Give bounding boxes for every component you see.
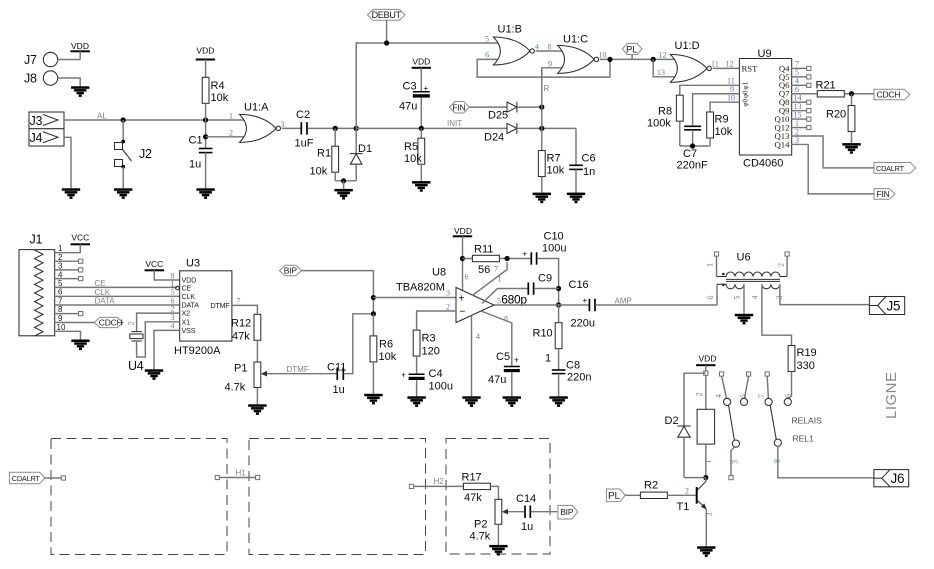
svg-text:6: 6 bbox=[706, 296, 715, 300]
svg-text:FIN: FIN bbox=[452, 102, 465, 112]
wire net DATA bbox=[55, 297, 180, 306]
svg-text:56: 56 bbox=[478, 264, 490, 276]
wire U9 pin10 to R9 bbox=[710, 94, 739, 113]
resistor R8 bbox=[647, 95, 683, 146]
transistor T1 bbox=[677, 478, 715, 517]
svg-text:R3: R3 bbox=[422, 333, 436, 345]
IC U3 HT9200A bbox=[171, 258, 232, 358]
wire J1 pin9 to CDCH bbox=[55, 322, 95, 324]
net tag CDALRT (bottom left) bbox=[9, 472, 65, 484]
ground (R6) bbox=[364, 394, 382, 405]
svg-text:10: 10 bbox=[727, 94, 735, 103]
net tag CDALRT (right) bbox=[874, 163, 916, 174]
svg-text:5: 5 bbox=[733, 296, 742, 300]
power VCC (J1) bbox=[55, 233, 90, 253]
svg-text:D1: D1 bbox=[358, 143, 372, 155]
svg-text:10k: 10k bbox=[547, 165, 565, 177]
svg-text:R8: R8 bbox=[658, 106, 672, 118]
resistor R3 bbox=[413, 330, 440, 374]
wire oscillator bottom bbox=[680, 143, 710, 148]
svg-text:6: 6 bbox=[485, 51, 489, 60]
svg-text:7: 7 bbox=[58, 296, 63, 305]
svg-text:H1: H1 bbox=[236, 469, 247, 478]
resistor R9 bbox=[707, 112, 733, 146]
svg-text:+: + bbox=[514, 356, 519, 365]
ground (C5) bbox=[503, 396, 521, 407]
gate U1:B bbox=[485, 24, 552, 66]
net tag BIP (bottom) bbox=[558, 505, 578, 519]
gate U1:C bbox=[548, 34, 607, 74]
resistor R11 bbox=[463, 244, 532, 277]
svg-text:+: + bbox=[424, 84, 429, 93]
svg-text:120: 120 bbox=[422, 346, 440, 358]
relay lever contact 8 bbox=[770, 405, 874, 478]
svg-text:C1: C1 bbox=[189, 135, 203, 147]
svg-text:C5: C5 bbox=[496, 351, 510, 363]
wire U8 pin4 bbox=[471, 316, 473, 397]
svg-text:6: 6 bbox=[784, 394, 793, 398]
wire U6 pin5 to ground bbox=[743, 284, 745, 314]
svg-text:1u: 1u bbox=[333, 384, 345, 396]
resistor R20 bbox=[826, 94, 855, 143]
wire net R vertical bbox=[542, 68, 550, 151]
wire net AL bbox=[64, 112, 246, 123]
connector J6 bbox=[874, 470, 909, 487]
svg-text:U3: U3 bbox=[186, 258, 200, 270]
capacitor C7 bbox=[677, 126, 708, 171]
svg-text:AL: AL bbox=[97, 112, 107, 121]
svg-text:R2: R2 bbox=[644, 480, 658, 492]
crystal U4 bbox=[127, 313, 180, 373]
wire U1:D pin13 bbox=[653, 59, 677, 76]
svg-text:VCC: VCC bbox=[145, 259, 163, 269]
svg-text:3: 3 bbox=[446, 289, 450, 298]
svg-text:4: 4 bbox=[535, 42, 539, 51]
svg-text:2: 2 bbox=[229, 128, 233, 137]
potentiometer P2 bbox=[470, 499, 525, 542]
resistor R7 bbox=[538, 151, 564, 193]
svg-text:1n: 1n bbox=[583, 166, 595, 178]
net tag PL (T1) bbox=[606, 489, 625, 502]
svg-text:7: 7 bbox=[237, 296, 241, 305]
svg-text:PL: PL bbox=[608, 491, 620, 502]
wire net CLK bbox=[55, 288, 180, 297]
svg-text:10: 10 bbox=[599, 51, 607, 60]
svg-text:J8: J8 bbox=[24, 72, 37, 86]
wire J4 to ground bbox=[64, 137, 71, 188]
svg-text:R10: R10 bbox=[533, 328, 553, 340]
svg-text:VDD: VDD bbox=[454, 226, 472, 236]
svg-text:T1: T1 bbox=[677, 501, 690, 513]
svg-text:CDALRT: CDALRT bbox=[12, 474, 41, 483]
svg-text:CD4060: CD4060 bbox=[743, 158, 783, 170]
ground (P1) bbox=[248, 404, 266, 415]
svg-text:VCC: VCC bbox=[71, 233, 89, 243]
wire C1 to U1:A pin2 bbox=[206, 136, 246, 138]
svg-text:FIN: FIN bbox=[877, 189, 890, 199]
svg-text:R4: R4 bbox=[211, 80, 225, 92]
svg-text:DTMF: DTMF bbox=[287, 365, 309, 374]
ground (R7) bbox=[533, 193, 551, 204]
svg-text:2: 2 bbox=[127, 322, 136, 326]
wire U3 DTMF out bbox=[232, 296, 258, 314]
power VCC (U3) bbox=[145, 259, 180, 280]
svg-text:4: 4 bbox=[476, 332, 480, 341]
capacitor C2 bbox=[282, 109, 359, 150]
wire U6 pin3 to J5 bbox=[780, 284, 870, 304]
capacitor C6 bbox=[569, 128, 595, 192]
svg-text:R12: R12 bbox=[231, 318, 251, 330]
relay contact pin6 circle bbox=[784, 394, 793, 406]
wire net CE bbox=[55, 279, 177, 288]
resistor R21 bbox=[792, 80, 874, 97]
svg-text:REL1: REL1 bbox=[793, 434, 815, 444]
svg-text:P1: P1 bbox=[234, 363, 247, 375]
svg-text:DATA: DATA bbox=[95, 297, 116, 306]
capacitor C11 bbox=[327, 314, 373, 396]
svg-text:+: + bbox=[459, 294, 465, 305]
svg-text:47k: 47k bbox=[232, 331, 250, 343]
capacitor C5 bbox=[488, 351, 520, 396]
svg-text:220nF: 220nF bbox=[677, 160, 708, 172]
svg-text:10k: 10k bbox=[379, 351, 397, 363]
wire net H1 bbox=[215, 469, 260, 480]
ground (T1) bbox=[697, 546, 715, 557]
svg-text:BIP: BIP bbox=[284, 266, 298, 276]
svg-text:C7: C7 bbox=[683, 148, 697, 160]
svg-text:R9: R9 bbox=[715, 114, 729, 126]
ground (J1) bbox=[71, 340, 89, 351]
svg-text:220u: 220u bbox=[571, 318, 595, 330]
svg-text:5: 5 bbox=[739, 394, 748, 398]
svg-text:CE: CE bbox=[95, 279, 106, 288]
wire J1 pin10 to ground bbox=[55, 331, 81, 339]
capacitor C14 bbox=[516, 493, 558, 533]
wire U8 pin1 to C9 bbox=[482, 289, 528, 304]
svg-text:R1: R1 bbox=[317, 148, 331, 160]
svg-text:HT9200A: HT9200A bbox=[174, 345, 221, 357]
svg-text:100u: 100u bbox=[542, 243, 566, 255]
wire U9 Q14 to FIN bbox=[792, 144, 874, 193]
diode D24 bbox=[484, 123, 576, 144]
ground (J8) bbox=[71, 86, 89, 97]
svg-text:AMP: AMP bbox=[615, 296, 632, 305]
relay lever contact 3 bbox=[729, 405, 740, 480]
svg-text:J4: J4 bbox=[30, 131, 43, 145]
svg-text:1: 1 bbox=[229, 112, 233, 121]
svg-text:U6: U6 bbox=[737, 252, 751, 264]
svg-text:7: 7 bbox=[757, 394, 766, 398]
svg-text:1u: 1u bbox=[189, 159, 201, 171]
capacitor C16 bbox=[569, 279, 596, 330]
svg-text:47u: 47u bbox=[488, 374, 506, 386]
svg-text:220n: 220n bbox=[567, 372, 591, 384]
ground (J2) bbox=[114, 188, 132, 199]
svg-text:RELAIS: RELAIS bbox=[792, 416, 823, 426]
wire U1:C out / PL row bbox=[600, 57, 677, 62]
svg-text:10k: 10k bbox=[211, 92, 229, 104]
svg-text:VDD: VDD bbox=[71, 41, 89, 51]
resistor R1 bbox=[310, 128, 339, 180]
op-amp gate U1:A bbox=[229, 102, 285, 143]
svg-text:INIT: INIT bbox=[447, 119, 462, 128]
svg-text:C16: C16 bbox=[569, 279, 589, 291]
svg-text:VDD: VDD bbox=[196, 46, 214, 56]
svg-text:R20: R20 bbox=[826, 109, 846, 121]
potentiometer P1 bbox=[225, 362, 338, 394]
svg-text:C3: C3 bbox=[403, 81, 417, 93]
wire U6 pin6 to AMP bbox=[716, 284, 718, 305]
svg-text:+: + bbox=[401, 371, 406, 380]
svg-text:Q14: Q14 bbox=[775, 139, 791, 149]
svg-text:4.7k: 4.7k bbox=[225, 382, 246, 394]
wire U9 pin11 to R8 bbox=[680, 77, 740, 96]
svg-text:100k: 100k bbox=[647, 118, 671, 130]
wire U8 pin2 to R3 bbox=[417, 311, 456, 330]
wire R1/D1 to ground bbox=[335, 178, 356, 189]
svg-text:D2: D2 bbox=[665, 415, 679, 427]
svg-text:VSS: VSS bbox=[182, 326, 196, 335]
capacitor C10 bbox=[523, 231, 567, 308]
ground (C8) bbox=[549, 396, 567, 407]
resistor R12 bbox=[231, 314, 261, 362]
wire T1 emitter to ground bbox=[705, 509, 707, 546]
dashed box H2 right bbox=[446, 439, 550, 555]
resistor R10 bbox=[533, 305, 562, 370]
wire J8 to ground bbox=[58, 78, 80, 86]
svg-text:C11: C11 bbox=[327, 362, 346, 374]
dashed box H1/H2 middle bbox=[249, 439, 426, 555]
wire U1:B pin6 feedback bbox=[477, 59, 610, 77]
svg-text:C14: C14 bbox=[516, 493, 536, 505]
capacitor C9 bbox=[501, 273, 558, 307]
resistor R2 bbox=[625, 480, 696, 499]
ground (C4) bbox=[407, 396, 425, 407]
svg-text:5: 5 bbox=[485, 34, 489, 43]
wire U1:C pin9 to net R bbox=[542, 68, 564, 77]
svg-text:330: 330 bbox=[797, 360, 815, 372]
ground (P2) bbox=[489, 545, 507, 556]
svg-text:2: 2 bbox=[695, 393, 704, 397]
svg-text:H2: H2 bbox=[434, 477, 445, 486]
capacitor C1 bbox=[189, 120, 213, 188]
ground (U6 pin5) bbox=[735, 314, 753, 325]
connector J3/J4 bbox=[29, 112, 64, 146]
connector J5 bbox=[869, 297, 904, 315]
svg-text:CDALRT: CDALRT bbox=[876, 164, 905, 173]
svg-text:−: − bbox=[460, 307, 466, 318]
svg-text:DEBUT: DEBUT bbox=[372, 10, 402, 20]
svg-text:2: 2 bbox=[777, 263, 786, 267]
wire BIP to U8 pin3 bbox=[301, 271, 376, 317]
svg-text:R17: R17 bbox=[462, 472, 482, 484]
svg-text:U1:A: U1:A bbox=[244, 102, 269, 114]
svg-text:J1: J1 bbox=[30, 233, 43, 247]
capacitor C3 bbox=[399, 81, 430, 129]
wire P1 to ground bbox=[256, 388, 258, 405]
wire U8 output row bbox=[494, 304, 589, 306]
svg-text:R6: R6 bbox=[379, 339, 393, 351]
svg-text:J2: J2 bbox=[139, 147, 152, 161]
relay coil REL1 bbox=[695, 375, 715, 480]
diode D25 bbox=[488, 102, 544, 122]
svg-text:C8: C8 bbox=[566, 360, 580, 372]
svg-text:47k: 47k bbox=[464, 492, 482, 504]
wire U8 pin3 input bbox=[373, 297, 456, 299]
svg-text:R5: R5 bbox=[404, 141, 418, 153]
connector J1 bbox=[19, 233, 66, 336]
svg-text:3: 3 bbox=[281, 120, 285, 129]
svg-text:J7: J7 bbox=[24, 53, 37, 67]
relay contacts 4,5,7 bbox=[714, 372, 772, 406]
svg-text:P2: P2 bbox=[474, 519, 487, 531]
dashed box H1 left bbox=[51, 439, 227, 555]
svg-text:PL: PL bbox=[626, 45, 637, 56]
svg-text:R19: R19 bbox=[797, 347, 817, 359]
resistor R19 bbox=[788, 346, 817, 399]
svg-text:C6: C6 bbox=[582, 153, 596, 165]
svg-text:10: 10 bbox=[57, 323, 66, 332]
svg-text:U8: U8 bbox=[432, 267, 446, 279]
connector J7 bbox=[24, 52, 58, 67]
ground (C6) bbox=[567, 193, 585, 204]
net tag CDCH (right) bbox=[874, 89, 910, 100]
svg-text:C10: C10 bbox=[544, 231, 564, 243]
svg-text:10k: 10k bbox=[404, 153, 422, 165]
svg-text:C2: C2 bbox=[296, 109, 310, 121]
wire U1:D out to U9 RST bbox=[713, 67, 740, 69]
diode D1 bbox=[350, 128, 372, 180]
svg-text:CDCH: CDCH bbox=[877, 90, 901, 100]
svg-text:11: 11 bbox=[711, 59, 719, 68]
svg-text:1: 1 bbox=[545, 353, 551, 365]
svg-text:BIP: BIP bbox=[560, 507, 574, 517]
net tag DEBUT bbox=[367, 9, 405, 43]
svg-text:U9: U9 bbox=[758, 48, 772, 60]
svg-text:X2: X2 bbox=[182, 309, 191, 318]
svg-text:U1:B: U1:B bbox=[498, 24, 522, 36]
wire U3 VSS to ground bbox=[154, 330, 180, 369]
svg-text:CLK: CLK bbox=[182, 292, 196, 301]
power VDD (U8) bbox=[453, 226, 472, 291]
svg-text:DTMF: DTMF bbox=[210, 301, 230, 310]
svg-text:8: 8 bbox=[504, 315, 508, 324]
svg-text:2: 2 bbox=[446, 302, 450, 311]
resistor R17 bbox=[462, 472, 499, 505]
svg-text:47u: 47u bbox=[399, 101, 417, 113]
svg-text:2: 2 bbox=[685, 487, 689, 496]
wire net AMP bbox=[595, 296, 717, 305]
svg-text:1u: 1u bbox=[521, 521, 533, 533]
net tag CDCH (J1) bbox=[94, 317, 123, 327]
svg-text:CDCH: CDCH bbox=[99, 318, 123, 328]
svg-text:U4: U4 bbox=[128, 359, 144, 373]
IC U9 CD4060 bbox=[739, 48, 791, 170]
svg-text:R: R bbox=[544, 84, 550, 93]
svg-text:φ0: φ0 bbox=[742, 90, 750, 98]
ground (R1/D1) bbox=[334, 189, 352, 200]
ground (R5) bbox=[412, 181, 430, 192]
wire U1:B out to U1:C pin8 bbox=[536, 50, 564, 52]
wire DEBUT net bbox=[356, 40, 500, 128]
wire J7 to VDD bbox=[58, 59, 80, 61]
ground (U3 VSS) bbox=[145, 369, 163, 380]
svg-text:3: 3 bbox=[795, 136, 799, 145]
ground (J3/J4) bbox=[62, 188, 80, 199]
amplifier U8 TBA820M bbox=[396, 265, 508, 342]
svg-text:2: 2 bbox=[171, 304, 175, 313]
svg-text:D25: D25 bbox=[488, 110, 508, 122]
svg-text:7: 7 bbox=[494, 265, 498, 274]
svg-text:6: 6 bbox=[465, 273, 469, 282]
svg-text:R11: R11 bbox=[474, 244, 493, 256]
svg-text:9: 9 bbox=[548, 59, 552, 68]
diode D2 bbox=[665, 373, 706, 477]
svg-text:U1:D: U1:D bbox=[675, 40, 700, 52]
power VDD (relay) bbox=[696, 354, 716, 376]
svg-text:12: 12 bbox=[726, 59, 734, 68]
power VDD (C3) bbox=[412, 57, 431, 92]
J1 stub pins 2,3,4,8 bbox=[55, 259, 83, 316]
svg-text:10k: 10k bbox=[715, 126, 733, 138]
svg-text:D24: D24 bbox=[484, 132, 504, 144]
svg-text:8: 8 bbox=[773, 459, 782, 463]
ground (C1) bbox=[196, 188, 214, 199]
gate U1:D bbox=[657, 40, 734, 82]
wire INIT row bbox=[356, 119, 507, 131]
svg-text:13: 13 bbox=[657, 68, 665, 77]
svg-text:φ1: φ1 bbox=[742, 81, 750, 89]
svg-text:+: + bbox=[583, 296, 588, 305]
svg-text:12: 12 bbox=[659, 51, 667, 60]
svg-text:RST: RST bbox=[742, 64, 759, 74]
svg-text:9: 9 bbox=[58, 314, 63, 323]
resistor R6 bbox=[370, 314, 397, 394]
svg-text:φ0: φ0 bbox=[742, 98, 750, 106]
wire U9 pin9 to C7 bbox=[693, 85, 740, 126]
wire P2 to ground bbox=[497, 524, 499, 545]
svg-text:1: 1 bbox=[58, 244, 63, 253]
resistor R4 bbox=[196, 46, 229, 121]
U9 right stub pins with squares bbox=[792, 60, 811, 145]
svg-text:5: 5 bbox=[171, 288, 175, 297]
svg-text:1uF: 1uF bbox=[295, 138, 314, 150]
wire U9 Q13 to CDALRT bbox=[792, 136, 874, 168]
power VDD (J7) bbox=[71, 41, 90, 60]
resistor R5 bbox=[404, 128, 425, 181]
svg-text:4: 4 bbox=[714, 394, 723, 398]
svg-text:VDD: VDD bbox=[699, 354, 717, 364]
svg-text:4: 4 bbox=[171, 322, 175, 331]
svg-text:8: 8 bbox=[548, 42, 552, 51]
svg-text:3: 3 bbox=[731, 460, 740, 464]
net tag BIP (U3 side) bbox=[280, 265, 302, 276]
wire U8 pin7 bbox=[473, 262, 508, 295]
svg-text:1: 1 bbox=[706, 263, 715, 267]
svg-text:100u: 100u bbox=[429, 381, 453, 393]
jumper J2 bbox=[115, 120, 152, 169]
connector J8 bbox=[24, 71, 58, 86]
ground (U8 pin4) bbox=[462, 396, 480, 407]
svg-text:TBA820M: TBA820M bbox=[396, 282, 445, 294]
capacitor C8 bbox=[552, 360, 592, 397]
svg-text:J3: J3 bbox=[30, 114, 43, 128]
svg-text:8: 8 bbox=[58, 305, 63, 314]
svg-text:4.7k: 4.7k bbox=[470, 531, 491, 543]
wire U8 pin8 to C5 bbox=[481, 311, 512, 366]
svg-text:VDD: VDD bbox=[412, 57, 430, 67]
wire J2 to ground bbox=[122, 167, 124, 189]
